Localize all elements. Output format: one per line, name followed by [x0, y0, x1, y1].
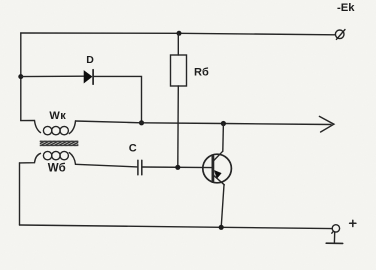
- wire top rail from left corner to -Ek terminal: [21, 33, 336, 35]
- svg-text:Wк: Wк: [49, 110, 66, 122]
- wire R6 bottom to base line (crosses output line, no dot): [177, 86, 180, 167]
- node junction dot R6 to base line: [175, 165, 180, 170]
- wire diode cathode to corner: [94, 76, 142, 122]
- wire bottom rail: [20, 225, 333, 229]
- terminal + (circle with stub and bar): [326, 225, 343, 244]
- wire diode anode: [21, 75, 84, 77]
- wire Wb left terminal down to bottom rail: [19, 163, 21, 225]
- svg-text:-Ek: -Ek: [337, 2, 355, 14]
- transistor Q1 (PNP): [203, 151, 232, 185]
- terminal -Ek (circle with slash): [335, 30, 345, 40]
- wire capacitor to base: [143, 166, 212, 169]
- svg-text:Rб: Rб: [194, 67, 209, 79]
- resistor R6 lead top: [177, 33, 179, 55]
- svg-text:Wб: Wб: [48, 163, 66, 175]
- wire collector up to output line: [222, 124, 225, 152]
- transformer core (hatched bar): [40, 141, 79, 146]
- capacitor C: [138, 160, 142, 175]
- wire emitter down to bottom rail: [221, 185, 224, 228]
- inductor Wb winding: [20, 151, 76, 164]
- node junction dot diode branch: [18, 74, 23, 79]
- label +: [350, 220, 356, 226]
- node junction dot diode to collector line: [139, 120, 144, 125]
- inductor Wk winding: [21, 120, 76, 134]
- diode D: [84, 70, 93, 85]
- node junction dot collector on output line: [221, 121, 226, 126]
- wire left vertical: [20, 33, 22, 121]
- node junction dot emitter on bottom rail: [219, 225, 224, 230]
- node junction dot R6 top on rail: [177, 31, 182, 36]
- resistor R6 body: [171, 55, 187, 86]
- arrow output (open chevron): [319, 116, 334, 132]
- wire output line Wk to arrow: [76, 121, 332, 125]
- svg-text:C: C: [129, 142, 137, 154]
- wire Wb to capacitor: [76, 164, 138, 167]
- svg-text:D: D: [86, 54, 94, 66]
